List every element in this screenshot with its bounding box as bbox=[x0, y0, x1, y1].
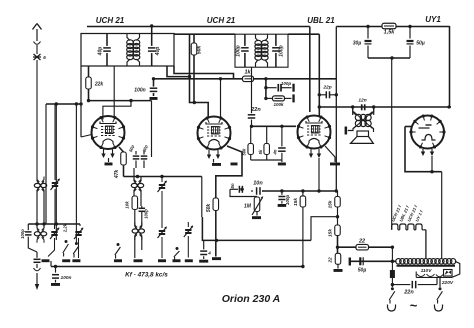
resistor 50k cath bbox=[206, 198, 219, 257]
ground 5n pad bbox=[199, 260, 208, 263]
wire PU tap bbox=[264, 79, 267, 100]
svg-text:4n: 4n bbox=[273, 149, 278, 155]
svg-text:50µ: 50µ bbox=[416, 41, 425, 47]
capacitor 50u mains bbox=[358, 257, 367, 273]
speaker bbox=[345, 127, 374, 144]
wire t1 grid drop bbox=[46, 102, 81, 105]
IF coil T1 bbox=[127, 34, 140, 67]
resistor 2k bbox=[328, 253, 341, 268]
svg-text:100p: 100p bbox=[236, 45, 242, 56]
svg-text:100p: 100p bbox=[279, 45, 285, 56]
dropper coil bbox=[396, 259, 460, 278]
svg-text:5k: 5k bbox=[258, 149, 263, 154]
wire filter down bbox=[391, 58, 393, 230]
ground osc bbox=[134, 259, 143, 262]
wire bias top bbox=[262, 189, 338, 192]
svg-text:6: 6 bbox=[43, 55, 46, 60]
wire bias tap bbox=[311, 215, 339, 240]
resistor 1k bbox=[243, 70, 254, 82]
wire grid line t1 bbox=[89, 99, 152, 102]
wire avc v2 bbox=[55, 104, 57, 240]
ground band a bbox=[62, 259, 70, 262]
wire V3 cathode bbox=[318, 158, 320, 191]
wire box1 to 1k bbox=[174, 66, 234, 79]
IF transformer T1 frame bbox=[79, 34, 174, 138]
resistor 15k a bbox=[293, 191, 306, 207]
capacitor 30u bbox=[353, 26, 372, 58]
ground det bbox=[251, 160, 286, 165]
capacitor 4n bbox=[273, 126, 286, 162]
svg-text:10k: 10k bbox=[125, 201, 130, 209]
svg-text:30µ: 30µ bbox=[353, 41, 362, 47]
tube V2 cathode leads bbox=[207, 150, 220, 159]
resistor 22 bbox=[356, 239, 369, 250]
label heater UCH21b bbox=[406, 204, 418, 222]
wire UY1 cathode route bbox=[405, 127, 442, 174]
antenna bbox=[33, 24, 42, 45]
svg-text:1k: 1k bbox=[244, 70, 251, 76]
ground tube V3 bbox=[325, 146, 340, 165]
voltage selector arcs 220 bbox=[416, 272, 452, 278]
capacitor 100p bias bbox=[278, 191, 290, 207]
svg-text:50p: 50p bbox=[142, 144, 149, 153]
switch band a bbox=[63, 240, 69, 257]
terminal 50u bbox=[349, 258, 351, 266]
svg-text:100p: 100p bbox=[144, 209, 149, 219]
wire AVC line bbox=[152, 77, 243, 80]
tube V1 cathode leads bbox=[101, 149, 114, 158]
wire UY1 right bbox=[449, 26, 451, 107]
svg-text:Kf · 473,8 kc/s: Kf · 473,8 kc/s bbox=[125, 272, 168, 279]
svg-text:50k: 50k bbox=[197, 46, 203, 55]
wire bus bottom bbox=[51, 261, 305, 268]
capacitor 100n bbox=[134, 79, 157, 100]
svg-text:100p: 100p bbox=[20, 229, 25, 239]
wire V2 cathode net bbox=[216, 146, 242, 198]
fuse bbox=[390, 247, 395, 287]
label UBL21 bbox=[307, 16, 335, 25]
svg-text:40p: 40p bbox=[155, 47, 161, 57]
svg-text:10n: 10n bbox=[253, 181, 263, 187]
svg-text:1M: 1M bbox=[244, 204, 252, 210]
antenna bottom cap bbox=[34, 252, 41, 290]
ground 2k bbox=[334, 269, 343, 272]
svg-text:40p: 40p bbox=[98, 47, 104, 57]
osc coil L3 bbox=[131, 168, 143, 206]
switch osc bbox=[174, 247, 180, 261]
antenna coil L2 bbox=[34, 225, 46, 243]
wire grid drop 1 bbox=[190, 34, 209, 118]
tube V1 UCH21 bbox=[91, 116, 125, 149]
voltage selector 110V bbox=[417, 268, 435, 277]
svg-text:1,5k: 1,5k bbox=[384, 30, 396, 36]
ground tube V2 a bbox=[212, 159, 221, 166]
wire avc v3 bbox=[75, 104, 77, 224]
wire AVC line right bbox=[254, 77, 337, 80]
wire osc drop bbox=[201, 177, 203, 218]
resistor det a bbox=[242, 126, 254, 160]
resistor 15k c bbox=[335, 225, 341, 253]
svg-text:15k: 15k bbox=[328, 229, 334, 237]
switch band b bbox=[73, 224, 79, 258]
label 2,2k bbox=[63, 223, 68, 233]
wire t1 anode riser bbox=[113, 66, 115, 118]
label heater UBL21 bbox=[398, 204, 410, 222]
wire 50u line bbox=[350, 260, 397, 263]
label title bbox=[222, 293, 281, 305]
tube V3 cathode leads bbox=[309, 149, 321, 158]
label heater UY1 bbox=[414, 209, 424, 222]
wire filter bottom bbox=[368, 56, 410, 59]
tube V4 UY1 bbox=[409, 114, 445, 148]
capacitor 5n bbox=[230, 183, 244, 193]
capacitor 22n bbox=[248, 67, 262, 126]
resistor 50k osc bbox=[191, 34, 202, 102]
svg-text:2,2k: 2,2k bbox=[63, 223, 68, 233]
svg-text:5n: 5n bbox=[230, 183, 235, 189]
svg-text:22: 22 bbox=[328, 257, 334, 264]
heater chain bbox=[392, 224, 426, 259]
wire bias mid drop bbox=[302, 207, 304, 267]
ground 50k cath bbox=[212, 257, 221, 260]
resistor 100k PU bbox=[266, 94, 295, 106]
ground tube V1 bbox=[105, 158, 113, 165]
capacitor 10n bbox=[251, 181, 264, 195]
wire antenna down bbox=[36, 60, 38, 181]
label UCH21 second bbox=[207, 16, 236, 25]
svg-text:50p: 50p bbox=[128, 144, 135, 153]
switch mains right bbox=[437, 277, 443, 304]
wire HT drop bbox=[441, 172, 443, 258]
resistor 10k osc bbox=[125, 196, 138, 227]
output transformer bbox=[348, 107, 374, 132]
tube V3 UBL21 bbox=[297, 115, 331, 148]
wire t1 inner link bbox=[103, 101, 131, 120]
capacitor 40p right bbox=[148, 24, 161, 66]
svg-text:~: ~ bbox=[410, 298, 418, 313]
svg-text:100p: 100p bbox=[285, 195, 290, 206]
wire antenna lead bbox=[36, 45, 38, 54]
capacitor 50p pair bbox=[128, 144, 149, 168]
ground osc a bbox=[158, 259, 166, 262]
label IF freq bbox=[125, 272, 168, 279]
wire ant below L1 bbox=[37, 190, 44, 229]
wire UBL rail drop bbox=[318, 34, 321, 115]
switch wave bbox=[115, 243, 121, 259]
wire OPT taps bbox=[353, 107, 374, 115]
ground potentiometer bbox=[252, 216, 261, 219]
wire top B+ bus bbox=[87, 25, 450, 28]
wire B+ drop bbox=[335, 27, 337, 192]
svg-text:100n: 100n bbox=[61, 275, 72, 281]
plug right bbox=[434, 305, 442, 312]
label UCH21 first bbox=[96, 16, 125, 25]
potentiometer 1M bbox=[244, 196, 263, 215]
plug left bbox=[387, 305, 395, 312]
trimmer C t1 bbox=[51, 104, 60, 224]
label UY1 bbox=[425, 15, 441, 24]
wire band line bbox=[28, 222, 80, 225]
tube V2 UCH21 bbox=[197, 116, 231, 149]
ground wave sw bbox=[114, 259, 122, 262]
resistor 22k bbox=[86, 66, 104, 102]
wire box1 elbow2 bbox=[167, 66, 191, 78]
capacitor 12n tone bbox=[358, 98, 366, 111]
wire avc v1 bbox=[45, 104, 47, 224]
capacitor 40p left bbox=[98, 34, 111, 67]
capacitor 22p fb bbox=[319, 85, 338, 99]
svg-text:4: 4 bbox=[207, 251, 211, 256]
svg-text:UBL 21: UBL 21 bbox=[307, 16, 335, 25]
wire det line bbox=[250, 125, 296, 128]
svg-text:12n: 12n bbox=[358, 98, 366, 104]
svg-text:22n: 22n bbox=[250, 107, 261, 113]
ground osc sw bbox=[173, 259, 181, 262]
wire screen rail bbox=[174, 33, 319, 35]
svg-text:15k: 15k bbox=[328, 200, 334, 208]
svg-text:22n: 22n bbox=[403, 290, 414, 296]
switch mains left bbox=[389, 287, 395, 303]
resistor det b bbox=[258, 126, 269, 160]
svg-text:110V: 110V bbox=[421, 268, 433, 274]
wire osc line bbox=[124, 175, 202, 178]
trimmer osc b bbox=[184, 222, 193, 258]
wire 5n elbow bbox=[230, 189, 257, 196]
svg-text:Orion 230 A: Orion 230 A bbox=[222, 293, 281, 305]
capacitor 100p ant bbox=[20, 224, 37, 252]
svg-text:UY1: UY1 bbox=[425, 15, 441, 24]
svg-text:220V: 220V bbox=[441, 280, 454, 286]
svg-text:15k: 15k bbox=[293, 198, 299, 206]
voltage selector 220V bbox=[441, 270, 454, 286]
ground ant cap bbox=[42, 259, 50, 262]
ground band b bbox=[72, 259, 80, 262]
capacitor 100p osc bbox=[139, 206, 149, 227]
wire V2 anode riser bbox=[220, 79, 222, 118]
IF coil T2 bbox=[255, 34, 268, 67]
resistor 47k bbox=[114, 147, 126, 179]
capacitor 100p PU bbox=[266, 81, 295, 92]
svg-text:100p: 100p bbox=[281, 81, 292, 86]
svg-text:UCH 21: UCH 21 bbox=[96, 16, 125, 25]
trimmer C t2 bbox=[48, 224, 59, 257]
capacitor 100n agnd bbox=[51, 267, 72, 286]
ground osc b bbox=[185, 259, 193, 262]
resistor 15k b bbox=[328, 191, 341, 225]
tube V4 heater leads bbox=[421, 149, 434, 156]
capacitor 100p right bbox=[272, 34, 284, 67]
capacitor 100p left bbox=[236, 34, 249, 67]
svg-text:50µ: 50µ bbox=[358, 268, 367, 274]
capacitor 5n pad bbox=[200, 240, 211, 259]
wire bus mid bbox=[202, 217, 311, 242]
svg-text:22p: 22p bbox=[322, 85, 331, 91]
svg-text:UCH 21: UCH 21 bbox=[207, 16, 236, 25]
wire anode line V3 bbox=[319, 105, 451, 108]
svg-text:100n: 100n bbox=[134, 88, 145, 94]
IF T1 waist bbox=[132, 44, 135, 57]
label AC bbox=[410, 298, 418, 313]
antenna coil L1 bbox=[34, 177, 46, 195]
capacitor 22n mains bbox=[391, 277, 437, 296]
svg-text:100k: 100k bbox=[273, 102, 284, 107]
svg-text:50k: 50k bbox=[206, 204, 212, 213]
IF transformer T2 frame bbox=[235, 34, 288, 67]
label heater UCH21a bbox=[390, 204, 402, 222]
wire heater route bbox=[431, 156, 433, 172]
wire t1 right drop bbox=[151, 101, 153, 157]
spark gap symbol bbox=[33, 54, 46, 60]
trimmer osc a bbox=[158, 177, 167, 259]
wire UBL grid drop bbox=[309, 27, 311, 113]
svg-text:22: 22 bbox=[358, 239, 365, 245]
IF T2 waist bbox=[260, 44, 263, 56]
wire padder top bbox=[203, 239, 205, 241]
label 15k c bbox=[328, 229, 334, 237]
svg-text:47k: 47k bbox=[114, 170, 120, 180]
capacitor 50u bbox=[407, 26, 425, 58]
ground tube V2 b bbox=[231, 163, 238, 166]
wire 22 line bbox=[336, 246, 394, 249]
osc coil L4 bbox=[132, 222, 144, 258]
svg-text:22k: 22k bbox=[94, 82, 104, 88]
resistor 1,5k bbox=[382, 23, 396, 35]
trimmer C t3 bbox=[74, 224, 83, 258]
